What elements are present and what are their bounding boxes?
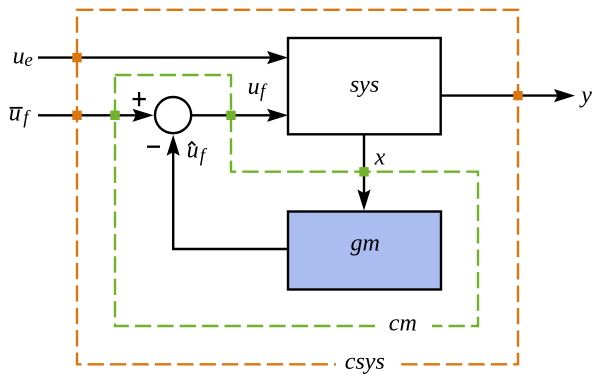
wire feedback gm to sum xyxy=(173,152,288,249)
svg-text:csys: csys xyxy=(345,349,385,375)
wire x (sys to gm) xyxy=(363,134,365,195)
svg-text:y: y xyxy=(579,82,592,108)
wire ubar_f xyxy=(38,114,137,116)
node marker green on x at cm boundary xyxy=(359,167,368,176)
arrowhead u_f into sys xyxy=(267,109,288,122)
wire u_f xyxy=(192,114,273,116)
node marker green on u_f at cm boundary xyxy=(226,111,235,120)
arrowhead y xyxy=(554,89,575,102)
boundary csys (orange dashed) xyxy=(77,10,518,365)
arrowhead feedback into sum xyxy=(167,135,180,156)
svg-text:u: u xyxy=(9,100,21,126)
block gm xyxy=(288,212,441,290)
svg-text:u: u xyxy=(248,74,260,100)
wire y output xyxy=(441,94,559,96)
node marker green on ubar_f at cm boundary xyxy=(110,111,119,120)
svg-text:sys: sys xyxy=(350,72,379,98)
plus sign xyxy=(133,98,146,100)
node marker orange on u_e xyxy=(72,53,81,62)
svg-text:x: x xyxy=(374,145,386,171)
boundary cm (green dashed) xyxy=(115,75,478,326)
gap for csys label xyxy=(336,356,395,374)
svg-text:e: e xyxy=(24,50,32,71)
minus sign xyxy=(147,146,160,148)
arrowhead ubar_f into sum xyxy=(133,109,154,122)
node marker orange on y xyxy=(513,91,522,100)
node marker orange on ubar_f xyxy=(72,111,81,120)
summing junction U1 xyxy=(155,97,191,133)
arrowhead x into gm xyxy=(357,190,370,211)
svg-text:gm: gm xyxy=(351,231,380,257)
svg-text:cm: cm xyxy=(389,311,417,337)
svg-text:u: u xyxy=(187,138,199,164)
svg-text:u: u xyxy=(13,44,25,70)
block sys xyxy=(288,38,441,134)
arrowhead u_e into sys xyxy=(267,51,288,64)
wire u_e xyxy=(38,56,272,58)
gap for cm label xyxy=(375,316,432,335)
